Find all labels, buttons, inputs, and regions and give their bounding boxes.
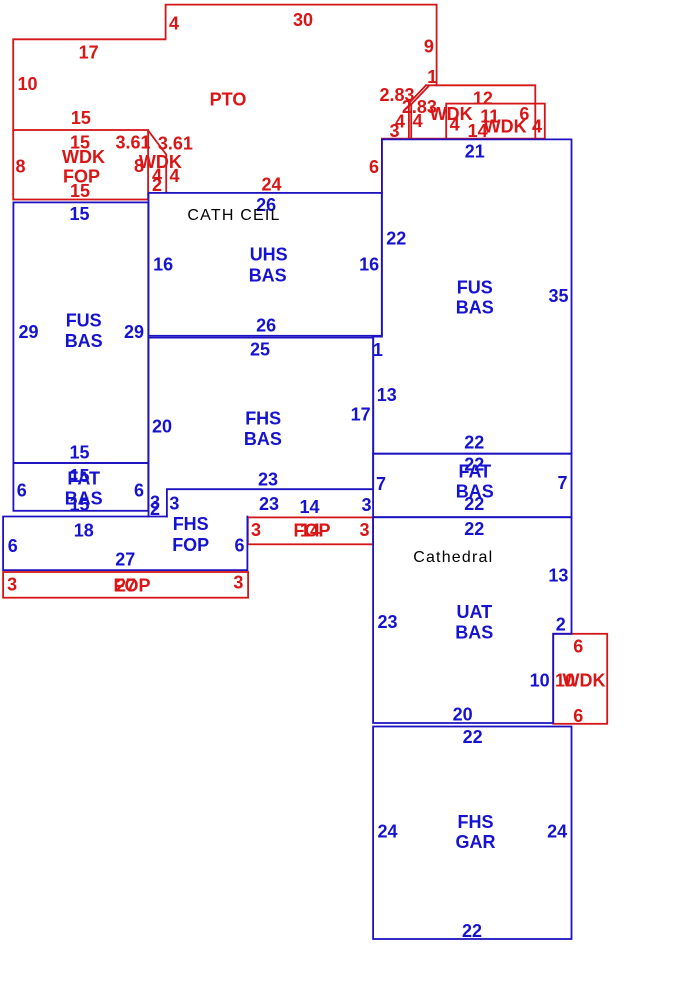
svg-text:FAT: FAT [67, 468, 100, 488]
UHS BAS box [149, 193, 382, 336]
svg-text:WDK: WDK [563, 671, 606, 691]
svg-text:8: 8 [15, 157, 25, 177]
svg-text:FHS: FHS [173, 514, 209, 534]
svg-text:13: 13 [377, 385, 397, 405]
svg-text:12: 12 [473, 89, 493, 109]
svg-text:6: 6 [234, 535, 244, 555]
svg-text:BAS: BAS [456, 298, 494, 318]
svg-text:13: 13 [548, 566, 568, 586]
svg-text:20: 20 [453, 704, 473, 724]
svg-text:15: 15 [69, 494, 89, 514]
svg-text:23: 23 [377, 612, 397, 632]
svg-text:15: 15 [71, 108, 91, 128]
svg-text:2: 2 [150, 499, 160, 519]
svg-text:18: 18 [74, 521, 94, 541]
svg-text:26: 26 [256, 315, 276, 335]
svg-text:6: 6 [134, 480, 144, 500]
svg-text:10: 10 [530, 671, 550, 691]
svg-text:BAS: BAS [244, 429, 282, 449]
FAT BAS right box [373, 454, 571, 518]
svg-text:22: 22 [464, 494, 484, 514]
svg-text:3: 3 [251, 520, 261, 540]
small wood deck WDK left diagonal [148, 131, 166, 193]
svg-text:7: 7 [376, 474, 386, 494]
svg-text:15: 15 [70, 181, 90, 201]
svg-text:FUS: FUS [457, 278, 493, 298]
svg-text:WDK: WDK [62, 147, 105, 167]
svg-text:23: 23 [258, 470, 278, 490]
svg-text:FHS: FHS [245, 409, 281, 429]
svg-text:6: 6 [17, 480, 27, 500]
svg-text:3.61: 3.61 [115, 133, 150, 153]
svg-text:25: 25 [250, 340, 270, 360]
svg-text:6: 6 [369, 157, 379, 177]
svg-text:UHS: UHS [250, 245, 288, 265]
svg-text:14: 14 [299, 497, 319, 517]
svg-text:22: 22 [386, 228, 406, 248]
svg-text:FHS: FHS [458, 812, 494, 832]
svg-text:6: 6 [8, 536, 18, 556]
svg-text:4: 4 [413, 111, 423, 131]
svg-text:20: 20 [152, 417, 172, 437]
PTO right lower edge 6 [381, 139, 383, 192]
svg-text:15: 15 [69, 204, 89, 224]
svg-text:24: 24 [547, 822, 567, 842]
svg-text:10: 10 [17, 74, 37, 94]
svg-text:Cathedral: Cathedral [413, 549, 493, 566]
FUS BAS left box [13, 202, 148, 463]
svg-text:6: 6 [573, 706, 583, 726]
svg-text:17: 17 [351, 405, 371, 425]
svg-text:3: 3 [169, 494, 179, 514]
svg-text:2: 2 [556, 614, 566, 634]
svg-text:UAT: UAT [456, 602, 492, 622]
svg-text:2: 2 [152, 175, 162, 195]
wood deck WDK2 top right [446, 104, 545, 140]
svg-text:FOP: FOP [113, 576, 150, 596]
svg-text:24: 24 [261, 175, 281, 195]
svg-text:24: 24 [377, 822, 397, 842]
svg-text:8: 8 [134, 156, 144, 176]
FHS BAS box [149, 338, 374, 517]
svg-text:29: 29 [124, 322, 144, 342]
svg-text:4: 4 [169, 14, 179, 34]
svg-text:7: 7 [557, 473, 567, 493]
svg-text:22: 22 [462, 921, 482, 941]
red WDK box right [553, 634, 607, 724]
svg-text:GAR: GAR [456, 832, 496, 852]
FHS GAR box [373, 727, 571, 940]
wood deck WDK FOP box left [13, 130, 148, 200]
svg-text:27: 27 [115, 549, 135, 569]
red bottom line under WDK boxes [382, 138, 545, 140]
svg-text:21: 21 [465, 142, 485, 162]
svg-text:4: 4 [532, 116, 542, 136]
svg-text:16: 16 [153, 255, 173, 275]
svg-text:4: 4 [450, 114, 460, 134]
svg-text:35: 35 [548, 286, 568, 306]
svg-text:30: 30 [293, 10, 313, 30]
right column outer: FUS BAS right box [373, 139, 571, 453]
wood deck WDK1 top right [411, 85, 535, 139]
svg-text:16: 16 [359, 255, 379, 275]
svg-text:22: 22 [464, 433, 484, 453]
svg-text:9: 9 [424, 37, 434, 57]
svg-text:FUS: FUS [66, 311, 102, 331]
svg-text:BAS: BAS [65, 331, 103, 351]
svg-text:1: 1 [427, 67, 437, 87]
patio PTO outline [13, 5, 436, 139]
red FOP box middle [248, 517, 373, 544]
svg-text:3: 3 [7, 575, 17, 595]
svg-text:4: 4 [169, 166, 179, 186]
svg-text:PTO: PTO [210, 90, 247, 110]
svg-text:CATH CEIL: CATH CEIL [187, 207, 280, 224]
red FOP box bottom left [3, 572, 248, 598]
svg-text:29: 29 [18, 322, 38, 342]
svg-text:FOP: FOP [293, 521, 330, 541]
svg-text:22: 22 [464, 519, 484, 539]
svg-text:BAS: BAS [249, 265, 287, 285]
svg-text:3.61: 3.61 [158, 134, 193, 154]
svg-text:23: 23 [259, 494, 279, 514]
svg-text:1: 1 [373, 340, 383, 360]
FHS FOP box [3, 517, 247, 571]
svg-text:22: 22 [463, 727, 483, 747]
svg-text:3: 3 [359, 520, 369, 540]
svg-text:3: 3 [389, 121, 399, 141]
svg-text:BAS: BAS [455, 622, 493, 642]
svg-text:FAT: FAT [458, 461, 491, 481]
svg-text:3: 3 [361, 495, 371, 515]
FAT BAS left box [13, 463, 148, 511]
svg-text:15: 15 [69, 443, 89, 463]
svg-text:17: 17 [79, 43, 99, 63]
UAT BAS cathedral box with notch [373, 517, 571, 723]
svg-text:FOP: FOP [172, 535, 209, 555]
svg-text:WDK: WDK [484, 116, 527, 136]
svg-text:6: 6 [573, 637, 583, 657]
svg-text:3: 3 [233, 573, 243, 593]
